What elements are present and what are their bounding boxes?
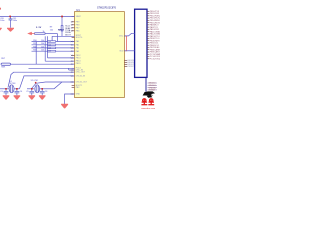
- svg-text:R17: R17: [33, 43, 36, 45]
- svg-text:SW1: SW1: [1, 67, 5, 69]
- svg-text:OSC_OUT: OSC_OUT: [76, 72, 86, 74]
- svg-text:PB8: PB8: [76, 25, 80, 27]
- svg-text:OSC32_OUT: OSC32_OUT: [76, 82, 88, 84]
- svg-text:1k: 1k: [43, 31, 45, 33]
- svg-text:10k: 10k: [41, 43, 44, 45]
- svg-text:10k: 10k: [50, 30, 53, 32]
- svg-text:STM32F103C8T6: STM32F103C8T6: [97, 7, 117, 10]
- svg-text:PB2/BT1: PB2/BT1: [128, 66, 135, 68]
- svg-text:VBAT: VBAT: [76, 15, 82, 18]
- svg-text:PC15/OS32: PC15/OS32: [150, 58, 160, 60]
- svg-text:C6: C6: [45, 91, 47, 93]
- svg-text:PA0: PA0: [76, 40, 79, 43]
- svg-text:3V3AB: 3V3AB: [149, 89, 156, 92]
- svg-text:PA3: PA3: [76, 50, 79, 53]
- svg-text:32.768: 32.768: [10, 83, 16, 85]
- svg-text:PB13: PB13: [76, 57, 81, 59]
- svg-text:GND: GND: [76, 94, 81, 96]
- svg-text:NRST: NRST: [58, 29, 65, 31]
- svg-text:BOOT0: BOOT0: [76, 37, 82, 39]
- svg-text:10k: 10k: [41, 46, 44, 48]
- svg-text:U1: U1: [76, 8, 80, 12]
- svg-text:C4: C4: [20, 91, 22, 93]
- svg-text:OSC32_IN: OSC32_IN: [76, 76, 86, 78]
- svg-text:10k: 10k: [41, 40, 44, 42]
- svg-text:PB15: PB15: [76, 63, 81, 65]
- svg-text:10k: 10k: [48, 47, 51, 49]
- svg-text:PB9: PB9: [76, 22, 80, 24]
- svg-text:VDD: VDD: [119, 51, 124, 53]
- svg-text:PA2: PA2: [76, 47, 79, 50]
- svg-text:10k: 10k: [48, 41, 51, 43]
- svg-text:C5: C5: [26, 91, 28, 93]
- svg-text:10k: 10k: [48, 51, 51, 53]
- svg-text:www.dzsc.com: www.dzsc.com: [141, 108, 155, 110]
- svg-text:R9: R9: [50, 27, 52, 29]
- svg-text:3.3V: 3.3V: [36, 27, 42, 29]
- svg-text:PB6: PB6: [76, 31, 80, 33]
- svg-text:PB7: PB7: [76, 28, 80, 30]
- svg-text:100n: 100n: [13, 20, 17, 22]
- svg-text:10k: 10k: [41, 50, 44, 52]
- svg-text:100n: 100n: [0, 20, 4, 22]
- svg-text:R18: R18: [33, 46, 36, 48]
- svg-text:PB2: PB2: [76, 87, 80, 89]
- svg-text:C3: C3: [0, 91, 2, 93]
- svg-text:X2 4.7M: X2 4.7M: [31, 80, 38, 82]
- svg-text:R16: R16: [33, 40, 36, 42]
- svg-text:10k: 10k: [48, 44, 51, 46]
- svg-text:PA1: PA1: [76, 44, 79, 47]
- svg-text:BOOT: BOOT: [65, 34, 71, 36]
- svg-text:R19: R19: [33, 50, 36, 52]
